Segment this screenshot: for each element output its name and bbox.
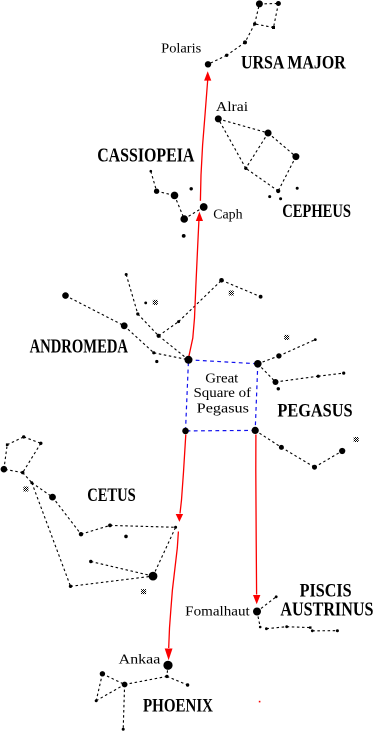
svg-text:Ankaa: Ankaa bbox=[119, 653, 161, 668]
svg-text:Fomalhaut: Fomalhaut bbox=[185, 605, 250, 620]
svg-text:ANDROMEDA: ANDROMEDA bbox=[30, 336, 128, 357]
svg-text:AUSTRINUS: AUSTRINUS bbox=[280, 599, 373, 620]
svg-text:Square of: Square of bbox=[194, 386, 252, 401]
svg-text:PHOENIX: PHOENIX bbox=[143, 696, 213, 717]
svg-text:Caph: Caph bbox=[213, 208, 242, 223]
svg-text:Great: Great bbox=[205, 372, 238, 387]
svg-text:Alrai: Alrai bbox=[216, 100, 248, 115]
svg-text:Pegasus: Pegasus bbox=[197, 402, 249, 417]
svg-text:PEGASUS: PEGASUS bbox=[277, 401, 352, 421]
svg-text:CASSIOPEIA: CASSIOPEIA bbox=[97, 144, 195, 166]
svg-text:PISCIS: PISCIS bbox=[300, 581, 352, 602]
svg-text:URSA MAJOR: URSA MAJOR bbox=[241, 53, 346, 74]
svg-text:Polaris: Polaris bbox=[161, 42, 201, 57]
svg-text:CETUS: CETUS bbox=[87, 485, 136, 506]
svg-text:CEPHEUS: CEPHEUS bbox=[282, 201, 351, 222]
